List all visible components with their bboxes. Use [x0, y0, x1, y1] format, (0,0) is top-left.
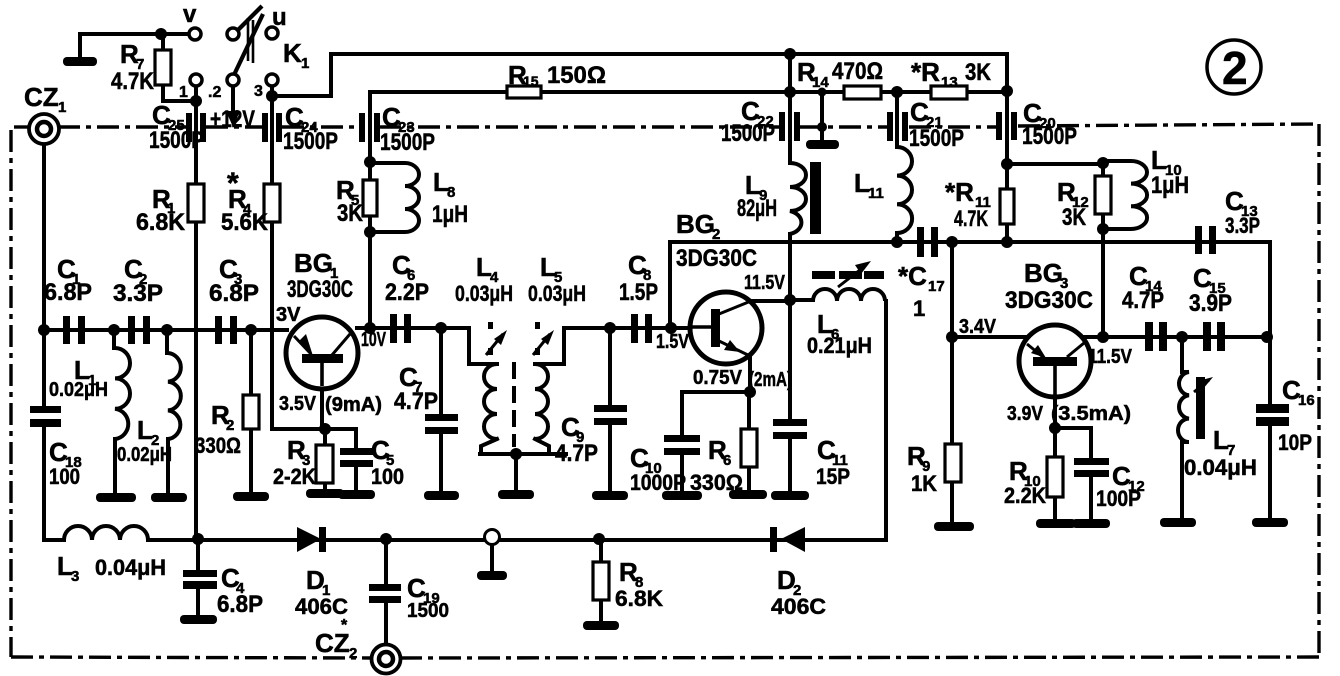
svg-text:2.2P: 2.2P: [385, 279, 429, 306]
svg-text:11.5V: 11.5V: [744, 272, 786, 294]
svg-text:(9mA): (9mA): [325, 394, 382, 416]
svg-text:0.02μH: 0.02μH: [49, 379, 108, 401]
svg-text:1500: 1500: [407, 600, 449, 622]
svg-text:6.8P: 6.8P: [44, 279, 92, 306]
svg-text:3K: 3K: [965, 59, 992, 86]
svg-text:3V: 3V: [276, 304, 301, 326]
svg-text:3.4V: 3.4V: [959, 316, 997, 338]
svg-text:.2: .2: [208, 84, 221, 101]
svg-text:1500P: 1500P: [909, 125, 964, 152]
svg-text:1μH: 1μH: [1151, 172, 1189, 199]
svg-text:100P: 100P: [1096, 486, 1141, 511]
svg-text:13: 13: [941, 74, 958, 91]
svg-text:82μH: 82μH: [737, 195, 777, 222]
svg-text:10P: 10P: [1278, 430, 1312, 455]
svg-text:11.5V: 11.5V: [1088, 346, 1133, 368]
svg-text:1500P: 1500P: [149, 127, 204, 154]
svg-text:2-2K: 2-2K: [273, 464, 316, 489]
svg-text:14: 14: [812, 74, 829, 91]
svg-text:4.7P: 4.7P: [394, 388, 438, 415]
svg-text:4.7P: 4.7P: [1122, 287, 1164, 314]
svg-text:2: 2: [712, 226, 720, 243]
svg-text:3.3P: 3.3P: [1225, 213, 1260, 238]
svg-text:*: *: [341, 617, 348, 634]
svg-text:1000P: 1000P: [630, 470, 686, 495]
svg-text:4.7K: 4.7K: [954, 206, 988, 231]
svg-text:0.21μH: 0.21μH: [807, 333, 872, 358]
svg-text:10V: 10V: [361, 329, 386, 351]
svg-text:3K: 3K: [1062, 204, 1087, 231]
svg-text:3.9P: 3.9P: [1189, 290, 1232, 317]
svg-text:0.04μH: 0.04μH: [1184, 455, 1257, 480]
svg-text:K: K: [283, 38, 302, 68]
svg-text:3.5V: 3.5V: [279, 393, 317, 415]
svg-text:3DG30C: 3DG30C: [1005, 287, 1093, 314]
svg-text:1500P: 1500P: [283, 128, 338, 155]
svg-text:1.5P: 1.5P: [619, 279, 658, 306]
svg-text:1: 1: [913, 296, 925, 321]
svg-text:4.7P: 4.7P: [555, 440, 598, 467]
svg-text:1500P: 1500P: [380, 129, 435, 156]
svg-text:1500P: 1500P: [1022, 123, 1077, 150]
svg-text:2: 2: [349, 645, 357, 662]
svg-text:16: 16: [1298, 392, 1315, 409]
svg-text:(3.5mA): (3.5mA): [1051, 403, 1131, 425]
svg-text:CZ: CZ: [24, 82, 59, 112]
svg-text:8: 8: [447, 184, 455, 201]
svg-text:*R: *R: [911, 57, 940, 87]
svg-text:0.03μH: 0.03μH: [528, 281, 586, 306]
svg-text:1μH: 1μH: [432, 201, 468, 228]
svg-text:6: 6: [723, 452, 731, 469]
svg-text:6.8P: 6.8P: [209, 280, 259, 307]
svg-text:1.5V: 1.5V: [656, 331, 690, 353]
svg-text:470Ω: 470Ω: [832, 58, 883, 85]
svg-text:2: 2: [1222, 42, 1248, 94]
svg-text:BG: BG: [676, 209, 715, 239]
svg-text:+12V: +12V: [210, 106, 255, 133]
svg-text:1: 1: [301, 55, 309, 72]
svg-text:100: 100: [49, 464, 80, 489]
svg-text:3: 3: [71, 568, 79, 585]
svg-text:17: 17: [928, 278, 945, 295]
svg-text:3: 3: [254, 83, 263, 100]
svg-text:3DG30C: 3DG30C: [287, 276, 353, 303]
svg-text:406C: 406C: [295, 594, 348, 619]
svg-text:5.6K: 5.6K: [221, 209, 269, 236]
svg-text:3DG30C: 3DG30C: [676, 245, 757, 272]
svg-text:(2mA): (2mA): [749, 369, 792, 391]
svg-text:0.02μH: 0.02μH: [117, 444, 172, 466]
svg-text:3K: 3K: [337, 200, 364, 227]
svg-text:*R: *R: [945, 177, 974, 207]
svg-text:BG: BG: [294, 248, 333, 278]
svg-text:u: u: [272, 4, 287, 31]
svg-text:0.04μH: 0.04μH: [95, 555, 166, 580]
svg-text:v: v: [183, 1, 197, 28]
svg-text:BG: BG: [1024, 258, 1063, 288]
svg-text:1: 1: [179, 84, 188, 101]
svg-text:330Ω: 330Ω: [690, 470, 743, 495]
svg-text:1K: 1K: [911, 471, 937, 496]
svg-text:6.8K: 6.8K: [136, 209, 186, 236]
svg-text:0.75V: 0.75V: [693, 367, 743, 389]
svg-text:4.7K: 4.7K: [111, 68, 155, 95]
svg-text:11: 11: [868, 185, 884, 202]
svg-text:6.8P: 6.8P: [217, 591, 263, 618]
svg-text:0.03μH: 0.03μH: [455, 281, 513, 306]
svg-text:1: 1: [58, 99, 66, 116]
svg-text:406C: 406C: [771, 594, 826, 619]
svg-text:3.9V: 3.9V: [1007, 403, 1044, 425]
svg-text:*C: *C: [898, 261, 927, 291]
svg-text:3.3P: 3.3P: [113, 280, 163, 307]
svg-text:15P: 15P: [816, 464, 850, 489]
svg-text:100: 100: [371, 464, 404, 489]
svg-text:330Ω: 330Ω: [195, 433, 241, 458]
svg-text:6.8K: 6.8K: [615, 586, 663, 611]
svg-text:15: 15: [523, 73, 539, 89]
svg-text:150Ω: 150Ω: [547, 62, 606, 89]
svg-text:2: 2: [226, 417, 234, 434]
svg-text:1500P: 1500P: [721, 120, 775, 147]
svg-text:2.2K: 2.2K: [1004, 483, 1046, 508]
